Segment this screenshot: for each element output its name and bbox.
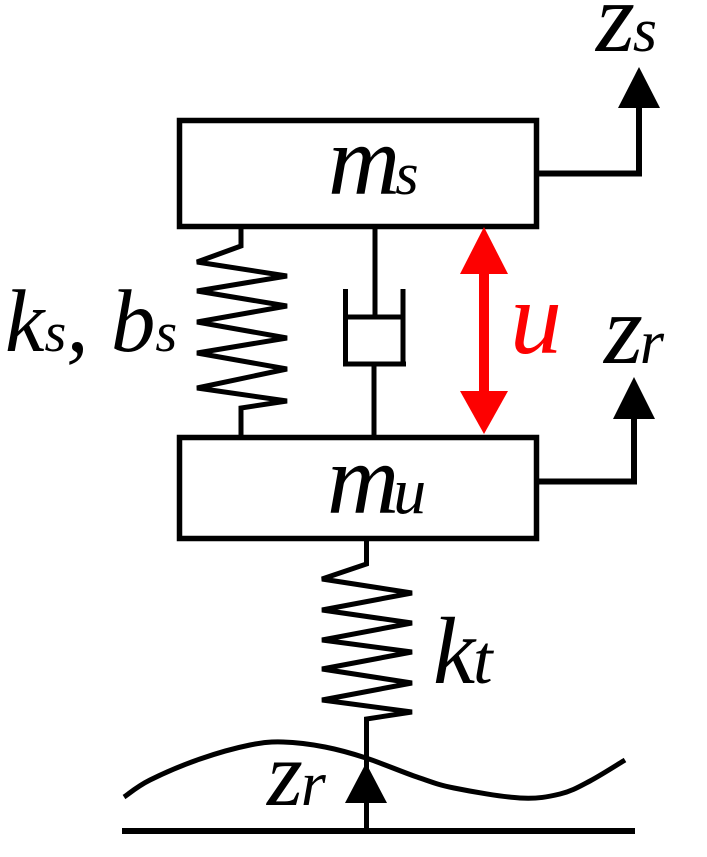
svg-text:u: u [510, 261, 562, 376]
damper piston [346, 315, 404, 320]
damper rod top [373, 226, 378, 317]
road input arrow zr [345, 763, 387, 803]
damper cylinder [343, 289, 406, 364]
wire mu to zr arrow [538, 419, 634, 482]
mass block ms [180, 121, 537, 227]
svg-text:zs: zs [594, 0, 657, 73]
arrow zs [618, 67, 660, 108]
svg-text:kt: kt [433, 598, 494, 704]
ground line [122, 828, 635, 834]
spring kt [322, 541, 412, 830]
arrow zr (unsprung) [613, 377, 655, 419]
mass block mu [180, 438, 537, 539]
svg-text:mu: mu [327, 424, 426, 535]
svg-text:zr: zr [602, 274, 665, 385]
actuator force arrow u (red double arrow) [479, 274, 489, 391]
svg-text:ks, bs: ks, bs [5, 273, 177, 371]
road profile curve [124, 742, 625, 798]
damper rod bottom [372, 364, 377, 437]
svg-text:zr: zr [265, 723, 327, 825]
spring ks [197, 226, 287, 437]
wire ms to zs arrow [537, 108, 639, 174]
